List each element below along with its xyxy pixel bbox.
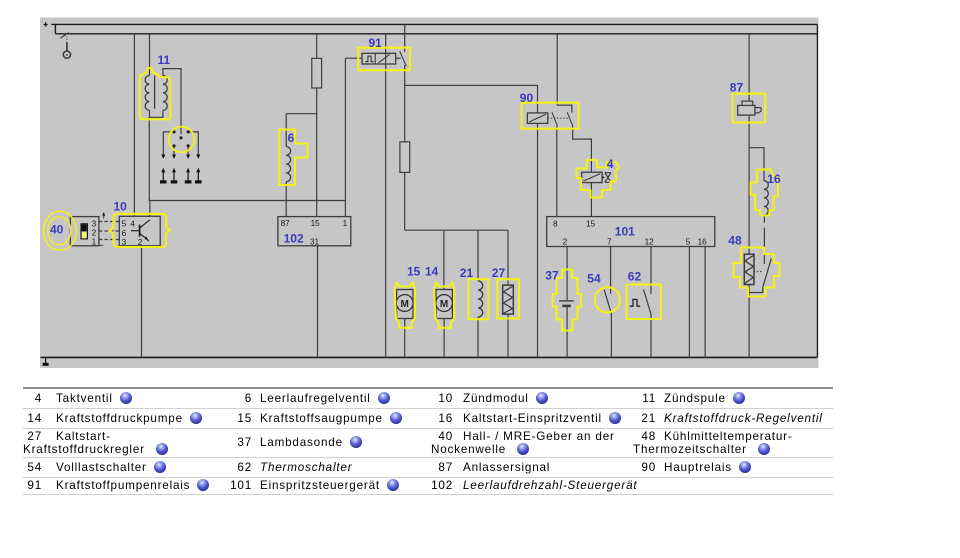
thermo time switch F48 heater bbox=[744, 254, 754, 284]
highlight pump 15 bbox=[395, 283, 415, 328]
wire: pump feed rail bbox=[405, 229, 508, 231]
svg-text:15: 15 bbox=[407, 265, 421, 279]
Hall sender element bbox=[81, 224, 87, 239]
wire: valve 6 to ECU102 pin 87 bbox=[285, 182, 287, 217]
svg-text:90: 90 bbox=[520, 91, 534, 105]
fuel pump relay J91 body bbox=[362, 53, 396, 64]
distributor rotor dot bbox=[179, 136, 182, 139]
highlight cold start valve 16 bbox=[751, 170, 779, 216]
wire: rail down to regulator valve 21 bbox=[477, 230, 479, 281]
wire: left terminal of relay 91 down to ECU102 pin 1 bbox=[344, 58, 346, 200]
wire: coil terminal 4 to distributor rotor bbox=[163, 69, 181, 135]
Hall sender G40 box bbox=[70, 217, 99, 246]
fuse S bbox=[312, 58, 322, 88]
wire: ECU101 pin 7 to full throttle switch bbox=[610, 247, 612, 294]
timing valve N4 coil bbox=[582, 172, 602, 182]
relay 90 actuation dotted link bbox=[548, 117, 569, 119]
svg-text:27: 27 bbox=[492, 266, 506, 280]
injection control unit J101 box bbox=[547, 217, 715, 247]
svg-text:1: 1 bbox=[92, 237, 97, 246]
wire: module 10 pin 2 to ground bus bbox=[141, 246, 143, 358]
highlight distributor rotor bbox=[169, 127, 195, 153]
svg-text:3: 3 bbox=[122, 238, 127, 247]
svg-text:40: 40 bbox=[50, 222, 64, 236]
wire: relay 90 output to ECU101 pin 8 bbox=[556, 126, 558, 217]
svg-text:2: 2 bbox=[92, 229, 97, 238]
wire: valve 16 to thermo time switch bbox=[763, 215, 765, 259]
thermo time switch actuation dots bbox=[754, 271, 763, 273]
pin number labels bbox=[92, 219, 708, 247]
spark plug stems bbox=[163, 171, 198, 180]
thermo time switch contact arm bbox=[749, 258, 771, 292]
spark plug terminals (bars) bbox=[160, 180, 202, 183]
cold start injection valve N16 winding bbox=[764, 181, 768, 215]
blue component labels bbox=[50, 36, 781, 285]
svg-text:10: 10 bbox=[114, 200, 128, 214]
wire: switch 62 to ground bus bbox=[650, 314, 652, 357]
spark plug lead 1 bbox=[163, 132, 174, 155]
fuel pressure pump V14 bbox=[436, 290, 452, 319]
svg-text:1: 1 bbox=[343, 219, 348, 228]
highlight regulator valve 21 bbox=[468, 279, 488, 319]
wire: starter signal down to node bbox=[748, 115, 750, 254]
svg-text:91: 91 bbox=[369, 36, 383, 50]
fuse S (pump circuit) bbox=[400, 142, 410, 173]
distributor contact dots bbox=[172, 130, 189, 147]
svg-text:7: 7 bbox=[607, 238, 612, 247]
svg-text:8: 8 bbox=[553, 219, 558, 228]
svg-text:2: 2 bbox=[563, 238, 568, 247]
cold start regulator N27 body bbox=[503, 285, 514, 314]
wire: ECU101 pin 12 to thermo switch 62 bbox=[650, 247, 652, 294]
wire: bus2 to ignition coil primary bbox=[149, 34, 151, 76]
relay 91 switch arm bbox=[400, 51, 407, 66]
wire: down to idle valve 6 bbox=[285, 114, 287, 147]
highlight thermo switch 62 bbox=[627, 285, 661, 320]
wire: down to idle ECU pin 1 bbox=[344, 201, 346, 217]
wire: bus2 down to relay 90 switch bbox=[556, 34, 558, 105]
idle speed control unit J102 box bbox=[278, 217, 351, 246]
svg-text:16: 16 bbox=[698, 238, 708, 247]
svg-text:6: 6 bbox=[288, 131, 295, 145]
highlight main relay 90 bbox=[522, 103, 579, 129]
wire: ECU101 pin 2 to lambda probe bbox=[566, 247, 568, 301]
wire: switch 54 to ground bus bbox=[610, 314, 612, 357]
wire: branch to main relay 90 coil bbox=[405, 85, 538, 113]
svg-text:54: 54 bbox=[587, 271, 601, 285]
fuel suction pump V15 bbox=[397, 290, 413, 319]
svg-text:102: 102 bbox=[284, 231, 304, 245]
wire: pump 14 to ground bus bbox=[443, 319, 445, 358]
wire: rail down to regulator 27 bbox=[507, 230, 509, 285]
highlight starter signal 87 bbox=[733, 94, 766, 123]
svg-text:101: 101 bbox=[615, 224, 635, 238]
wire: bus1 down to relay 91 switch bbox=[404, 24, 406, 51]
relay 90 switch arm 2 bbox=[567, 112, 573, 126]
svg-text:31: 31 bbox=[310, 237, 320, 246]
highlight module 10 bbox=[110, 214, 170, 247]
relay 90 switch arm 1 bbox=[552, 112, 558, 126]
svg-text:15: 15 bbox=[311, 219, 321, 228]
wire: feed branch to idle valve 6 bbox=[286, 113, 317, 115]
wire: relay 91 left terminal bbox=[345, 57, 362, 59]
wire: relay 90 coil to ground bus bbox=[537, 123, 539, 357]
wire: relay 91 switch through fuse to junction bbox=[404, 65, 406, 230]
wire: rail drop to switched bus bbox=[54, 24, 56, 33]
ignition coil secondary winding bbox=[163, 76, 167, 111]
wire: battery + bus (top rail 30) bbox=[51, 23, 817, 25]
thermo switch pulse symbol bbox=[630, 299, 640, 306]
wire: branch into ignition module collector bbox=[149, 201, 151, 217]
wire: coil terminal 1 down to node bbox=[148, 117, 150, 200]
transistor Q inside module 10 bbox=[131, 220, 150, 241]
ignition coil core bbox=[154, 76, 156, 109]
wire: relay 91 coil ground line bus2 to ground bus bbox=[385, 34, 387, 358]
svg-text:16: 16 bbox=[767, 172, 781, 186]
svg-text:5: 5 bbox=[122, 220, 127, 229]
relay 90 switch jog bbox=[557, 105, 572, 112]
wire: bus2 down to starter signal 87 bbox=[748, 34, 750, 101]
hall sender signal dashes to module bbox=[99, 222, 119, 240]
wire: ECU101 pin 16 to ground bus bbox=[704, 247, 706, 358]
timing valve N4 restrictor bbox=[605, 173, 611, 183]
minus mark at module input bbox=[100, 245, 104, 247]
highlight coil 11 bbox=[140, 68, 171, 119]
svg-text:2: 2 bbox=[138, 238, 143, 247]
wire: right edge return line bbox=[816, 24, 818, 357]
wire: relay 91 right terminal bbox=[396, 57, 401, 59]
svg-text:4: 4 bbox=[607, 157, 614, 171]
plus mark at module input bbox=[103, 214, 105, 219]
svg-text:62: 62 bbox=[628, 269, 642, 283]
wire: bus2 to ignition module pin 4 bbox=[133, 34, 135, 217]
highlight idle valve 6 bbox=[279, 130, 307, 186]
wire: relay 90 second throw to timing valve bbox=[573, 126, 592, 172]
wire: switch 48 to ground bus bbox=[748, 285, 750, 358]
svg-text:12: 12 bbox=[645, 238, 655, 247]
pressure regulator valve N21 winding bbox=[478, 281, 483, 317]
wire: timing valve to ECU101 pin 15 bbox=[590, 183, 592, 217]
highlight pump 14 bbox=[434, 283, 454, 328]
svg-text:M: M bbox=[401, 299, 409, 310]
highlight lambda probe 37 bbox=[553, 270, 582, 331]
wire: ECU101 pin 5 to ground bus bbox=[688, 247, 690, 358]
svg-text:48: 48 bbox=[728, 234, 742, 248]
wire: coil bottom bridge terminal 1 bbox=[150, 110, 163, 117]
highlight thermo time switch 48 bbox=[734, 248, 780, 297]
svg-text:11: 11 bbox=[158, 53, 171, 67]
spark plug lead 3 bbox=[187, 147, 189, 155]
ignition module U10 box bbox=[119, 216, 160, 246]
highlight fuel pump relay 91 bbox=[358, 48, 410, 70]
wire: ground bus (bottom rail 31) bbox=[41, 356, 818, 358]
svg-text:6: 6 bbox=[122, 229, 127, 238]
starter signal symbol 87 bbox=[738, 105, 755, 115]
thermo switch F62 arm bbox=[644, 290, 652, 315]
svg-text:3: 3 bbox=[92, 220, 97, 229]
svg-text:37: 37 bbox=[545, 269, 559, 283]
plus terminal mark bbox=[44, 22, 48, 26]
svg-text:21: 21 bbox=[460, 266, 474, 280]
spark plug lead 2 bbox=[173, 147, 175, 155]
svg-text:87: 87 bbox=[730, 81, 744, 95]
wire: branch to cold start valve 16 bbox=[749, 148, 764, 181]
main relay J90 coil bbox=[527, 113, 547, 124]
svg-text:M: M bbox=[440, 299, 448, 310]
highlight full throttle switch 54 bbox=[595, 287, 620, 312]
svg-text:14: 14 bbox=[425, 265, 439, 279]
wire: terminal 1 rail to control units bbox=[149, 200, 346, 202]
svg-text:4: 4 bbox=[130, 220, 135, 229]
highlight hall sender rings bbox=[44, 211, 77, 250]
ignition switch with key bbox=[60, 33, 68, 39]
wire: regulator 27 to ground bus bbox=[507, 314, 509, 357]
spark plug lead 4 bbox=[188, 132, 198, 155]
idle control valve N6 winding bbox=[286, 147, 290, 182]
wire: switched bus (rail 15) bbox=[55, 33, 817, 35]
svg-text:5: 5 bbox=[686, 238, 691, 247]
wire: lambda probe to ground bus bbox=[566, 307, 568, 357]
highlight cold start regulator 27 bbox=[497, 279, 519, 318]
svg-text:87: 87 bbox=[281, 219, 291, 228]
wire: ECU102 pin 31 to ground bus bbox=[317, 246, 319, 358]
lambda probe G37 element bbox=[559, 300, 574, 302]
wire: valve 21 to ground bus bbox=[477, 317, 479, 357]
svg-text:15: 15 bbox=[586, 219, 596, 228]
diagram background panel bbox=[40, 18, 819, 369]
wire: bus2 through fuse to ECU102 pin 15 bbox=[316, 34, 318, 217]
spark gap arrows down bbox=[161, 155, 200, 159]
full throttle switch F54 arm bbox=[604, 290, 612, 315]
ignition coil U1 primary winding bbox=[145, 76, 149, 111]
wire: rail down to pump 14 bbox=[443, 230, 445, 289]
highlight timing valve 4 bbox=[577, 160, 620, 198]
yellow selection highlights bbox=[44, 48, 780, 331]
spark gap arrows up bbox=[161, 168, 200, 172]
wire: pump 15 to ground bus bbox=[404, 319, 406, 358]
ground symbol bbox=[43, 357, 49, 364]
